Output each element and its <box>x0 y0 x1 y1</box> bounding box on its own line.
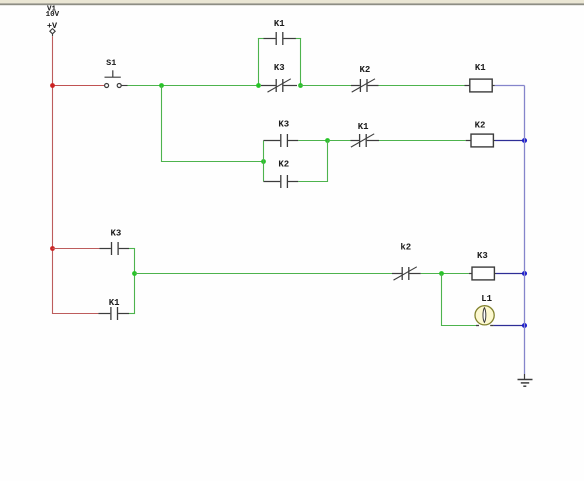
wire green rung2 to coil K2 <box>379 140 466 142</box>
toolbar edge strip <box>0 0 584 5</box>
relay contact K2 normally-open (rung2 lower branch) <box>264 160 299 188</box>
wire green rung1 S1 to parallel block <box>128 85 261 87</box>
lamp L1 <box>475 294 494 326</box>
wire green K1 contact to left column <box>129 313 135 315</box>
svg-text:L1: L1 <box>481 294 492 304</box>
relay contact k2 normally-closed (rung3) <box>392 242 421 280</box>
svg-text:K2: K2 <box>278 160 289 170</box>
svg-text:K3: K3 <box>110 229 121 239</box>
wire green rung2 feed horizontal <box>161 161 264 163</box>
relay contact K1 normally-closed (rung2) <box>351 122 380 147</box>
svg-text:K1: K1 <box>109 298 120 308</box>
node green junction left of parallel block <box>256 83 261 88</box>
wire navy rung2 coil to right bus <box>495 140 525 142</box>
node blue junction rung2 <box>522 138 527 143</box>
wire green k2 contact to coil K3 <box>421 273 469 275</box>
wire green rung3 horizontal to k2 contact <box>135 273 393 275</box>
wire navy rung3 coil to right bus <box>496 273 525 275</box>
ground symbol <box>518 374 533 386</box>
wire green K3 contact to junction (rung2) <box>298 140 330 142</box>
wire green K3 contact to left column <box>129 248 135 250</box>
wire green rung1 to K2 contact <box>299 85 352 87</box>
svg-text:K1: K1 <box>274 19 285 29</box>
svg-text:S1: S1 <box>106 58 116 68</box>
node green junction rung2 right of parallel <box>325 138 330 143</box>
relay contact K1 normally-open (rung4) <box>98 298 129 320</box>
switch S1 pushbutton <box>105 58 128 88</box>
relay coil K3 <box>469 251 496 280</box>
svg-text:K1: K1 <box>475 63 486 73</box>
wire green rung1 to coil K1 <box>379 85 465 87</box>
wire green vertical left column rung3 to rung4 <box>134 249 136 314</box>
relay contact K2 normally-closed (rung1) <box>351 65 379 92</box>
wire green vertical lamp branch <box>441 274 443 326</box>
node green junction after S1 <box>159 83 164 88</box>
relay contact K3 normally-open (rung3) <box>100 229 130 255</box>
label V1 value <box>46 5 60 31</box>
node green junction right of parallel block <box>298 83 303 88</box>
wire red rung3 horizontal <box>53 248 100 250</box>
svg-text:K3: K3 <box>278 120 289 130</box>
wire green K2 branch return loop <box>298 141 328 182</box>
wire green vertical S1 node down to rung2 feed <box>161 86 163 162</box>
svg-text:K2: K2 <box>475 120 486 130</box>
svg-text:k2: k2 <box>400 242 411 252</box>
node blue junction rung3 <box>522 271 527 276</box>
relay contact K1 normally-open (top branch) <box>264 19 296 45</box>
relay coil K1 <box>465 63 495 92</box>
node red junction rung1 <box>50 83 55 88</box>
svg-text:K3: K3 <box>477 251 488 261</box>
svg-text:K1: K1 <box>358 122 369 132</box>
node green junction rung3 lamp tap <box>439 271 444 276</box>
wire periwinkle rung1 coil to right bus <box>495 85 525 87</box>
node red junction rung3 <box>50 246 55 251</box>
relay contact K3 normally-closed (rung1) <box>261 63 297 92</box>
power terminal +V of source V1 (diamond) <box>50 29 55 37</box>
wire green vertical right side of K1 branch <box>300 39 302 86</box>
svg-text:K2: K2 <box>359 65 370 75</box>
wire green lamp branch horizontal <box>441 325 476 327</box>
wire periwinkle right vertical bus <box>524 86 526 375</box>
wire red rung1 horizontal <box>53 85 105 87</box>
wire green vertical left side of K1 branch <box>258 39 260 86</box>
node green junction rung2 feed split <box>261 159 266 164</box>
wire green vertical split left of K3/K2 parallel <box>263 141 265 182</box>
wire red rung4 horizontal <box>52 313 98 315</box>
node blue junction lamp rung <box>522 323 527 328</box>
relay coil K2 <box>466 120 495 147</box>
node green junction rung3 output <box>132 271 137 276</box>
svg-text:K3: K3 <box>274 63 285 73</box>
wire green top branch stubs <box>258 38 264 40</box>
relay contact K3 normally-open (rung2) <box>264 120 299 148</box>
wire green rung2 junction to K1 contact <box>328 140 351 142</box>
svg-text:10V: 10V <box>46 11 60 19</box>
wire navy lamp to right bus <box>494 325 525 327</box>
wire red left vertical bus <box>52 36 54 313</box>
